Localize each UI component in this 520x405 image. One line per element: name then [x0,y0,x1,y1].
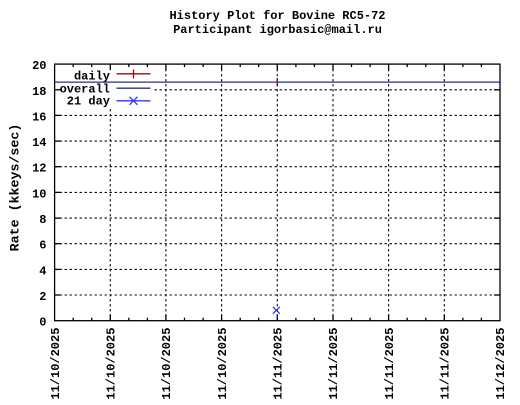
y tick labels [32,59,46,330]
key: daily [74,69,151,83]
grid horizontal lines [55,90,500,295]
svg-text:12: 12 [32,162,46,176]
svg-text:6: 6 [39,239,46,253]
svg-text:11/10/2025: 11/10/2025 [49,328,63,400]
svg-text:11/11/2025: 11/11/2025 [327,328,341,400]
svg-text:daily: daily [74,69,110,83]
svg-text:0: 0 [39,316,46,330]
svg-text:16: 16 [32,110,46,124]
svg-text:11/11/2025: 11/11/2025 [272,328,286,400]
grid vertical lines [110,64,444,321]
svg-text:11/10/2025: 11/10/2025 [216,328,230,400]
svg-text:11/10/2025: 11/10/2025 [105,328,119,400]
data: 21 day x marker [273,307,280,314]
key: 21 day [67,95,151,109]
svg-text:11/12/2025: 11/12/2025 [494,328,508,400]
svg-text:11/10/2025: 11/10/2025 [160,328,174,400]
key: overall [60,82,151,96]
svg-text:Participant igorbasic@mail.ru: Participant igorbasic@mail.ru [173,23,382,37]
axis ticks [55,64,500,321]
svg-text:20: 20 [32,59,46,73]
svg-text:11/11/2025: 11/11/2025 [439,328,453,400]
data: daily + marker [276,78,278,86]
svg-text:8: 8 [39,213,46,227]
svg-text:11/11/2025: 11/11/2025 [383,328,397,400]
svg-text:21 day: 21 day [67,95,110,109]
plot border [55,64,500,321]
data: overall line [55,81,500,83]
key blank box [55,65,152,107]
svg-text:History Plot for Bovine RC5-72: History Plot for Bovine RC5-72 [169,9,385,23]
svg-text:14: 14 [32,136,46,150]
svg-text:18: 18 [32,85,46,99]
svg-text:2: 2 [39,290,46,304]
svg-text:Rate (kkeys/sec): Rate (kkeys/sec) [7,124,22,252]
svg-text:10: 10 [32,187,46,201]
svg-text:4: 4 [39,264,46,278]
x tick labels (rotated) [49,328,508,400]
